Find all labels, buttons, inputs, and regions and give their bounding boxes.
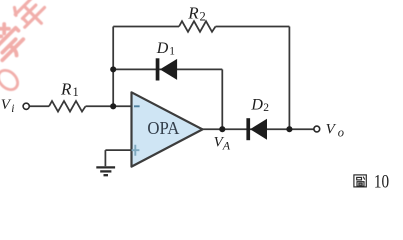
svg-text:2: 2: [200, 9, 206, 23]
svg-text:1: 1: [169, 45, 175, 57]
svg-text:10: 10: [374, 171, 389, 192]
svg-text:1: 1: [73, 85, 79, 99]
svg-text:i: i: [11, 103, 14, 115]
svg-text:D: D: [156, 40, 169, 57]
svg-text:OPA: OPA: [147, 118, 179, 138]
svg-text:2: 2: [263, 102, 269, 114]
svg-text:R: R: [187, 4, 199, 23]
svg-text:R: R: [60, 79, 72, 98]
svg-text:A: A: [222, 138, 231, 152]
svg-text:o: o: [338, 125, 344, 139]
svg-text:D: D: [250, 97, 263, 114]
